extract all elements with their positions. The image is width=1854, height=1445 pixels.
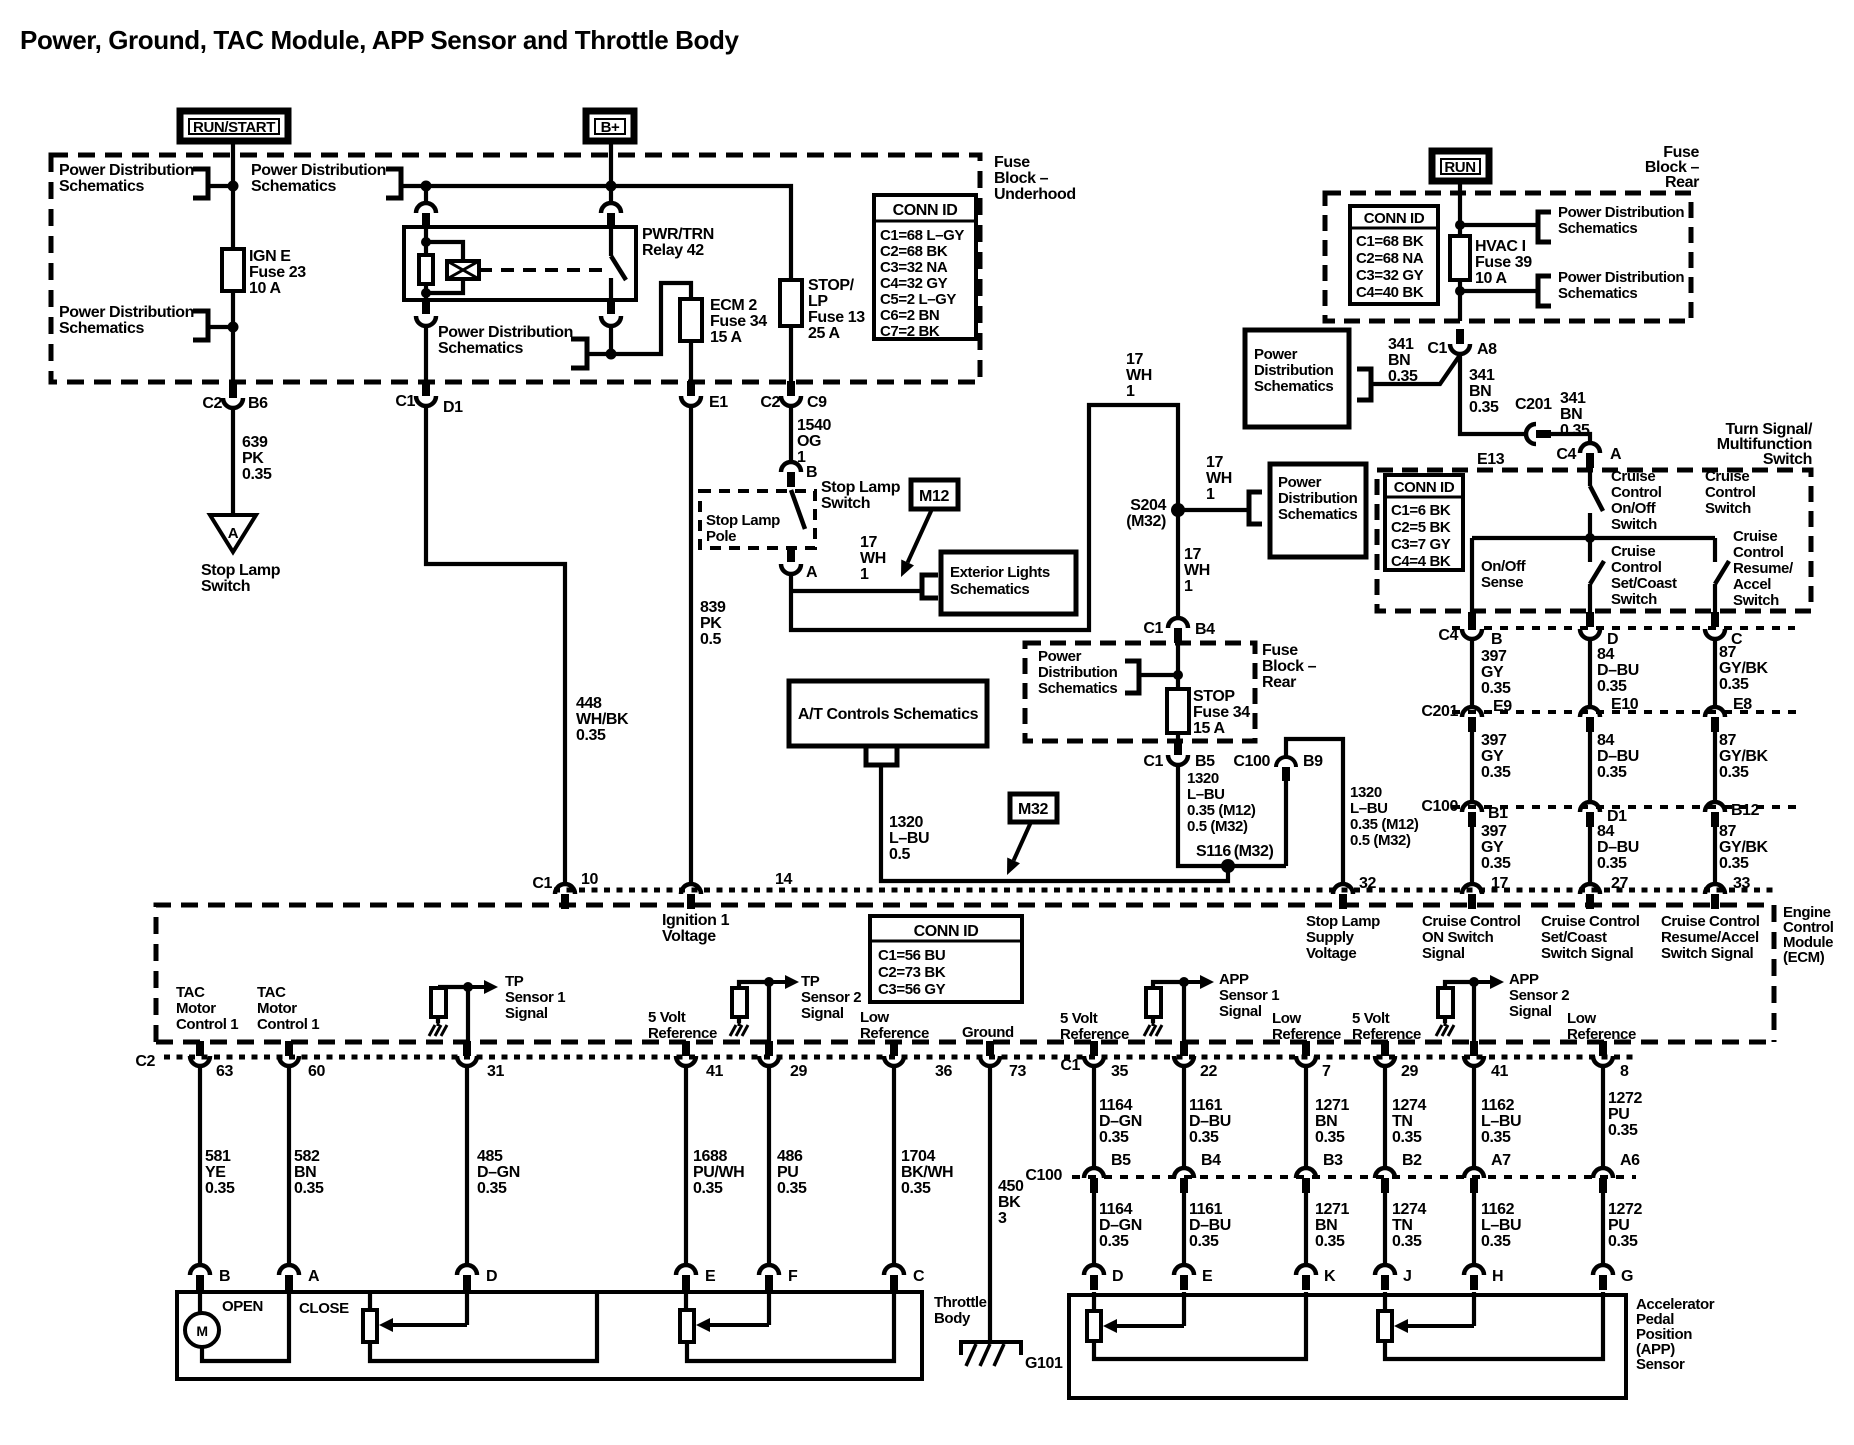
- wire 582 BN pin60 to A: [287, 1067, 291, 1264]
- ECM pin 27: [1580, 884, 1600, 909]
- wire 1704 BKWH pin36 to C: [892, 1067, 896, 1264]
- connector C201 E9: [1462, 707, 1482, 732]
- label OPEN: [222, 1298, 263, 1315]
- ECM pin 29: [759, 1041, 779, 1066]
- wire F wiper arrow pot2: [767, 1289, 771, 1325]
- ECM pin 31: [457, 1041, 477, 1066]
- relay coil resistor: [419, 255, 433, 284]
- wire label 1162 L–BU 0.35 upper: [1481, 1097, 1521, 1146]
- connector C100 B9: [1276, 757, 1296, 781]
- wire D wiper arrow pot1: [465, 1289, 469, 1325]
- fuse STOP/LP Fuse 13 25A: [780, 280, 802, 326]
- wire label 1704 BK/WH 0.35: [901, 1148, 953, 1197]
- cruise control resume/accel switch blade: [1713, 538, 1717, 562]
- svg-text:B: B: [219, 1268, 230, 1285]
- label low reference app1: [1272, 1010, 1341, 1043]
- label ground: [962, 1024, 1014, 1041]
- wire branch to exterior lights: [791, 589, 921, 593]
- label stop lamp supply voltage: [1306, 913, 1380, 962]
- svg-text:C2: C2: [760, 394, 780, 411]
- bracket power distribution HVAC top: [1538, 212, 1551, 242]
- wire 1688 PUWH pin41 to E: [684, 1067, 688, 1264]
- connector B stop lamp switch: [781, 462, 801, 487]
- svg-text:F: F: [788, 1268, 798, 1285]
- wire RUN to HVAC fuse: [1458, 181, 1462, 236]
- wire label 1274 TN 0.35 lower: [1392, 1201, 1426, 1250]
- wire motor loop: [198, 1289, 202, 1313]
- node junction at Power Distribution tap 1: [228, 181, 239, 192]
- wire APP pot1 bottom to K: [1094, 1292, 1306, 1359]
- connector C1 B5: [1168, 740, 1188, 765]
- wire 84 DBU col2 row1: [1588, 639, 1592, 707]
- svg-text:C1: C1: [395, 393, 415, 410]
- svg-text:E13: E13: [1477, 451, 1505, 468]
- APP sensor 2 pullup resistor: [1438, 988, 1453, 1017]
- wire label 1272 PU 0.35 lower: [1608, 1201, 1642, 1250]
- wire STOP fuse to C1 B5: [1176, 733, 1180, 741]
- svg-text:C100: C100: [1233, 753, 1270, 770]
- wire label 397 GY 0.35 row1: [1481, 648, 1511, 697]
- svg-text:B3: B3: [1323, 1152, 1343, 1169]
- label throttle body: [934, 1294, 987, 1327]
- wire 84 DBU col2 row3: [1588, 827, 1592, 884]
- wire IGN E fuse to connector C2 B6: [231, 291, 235, 381]
- svg-text:M: M: [196, 1323, 207, 1339]
- junction dot B plus bus: [606, 181, 617, 192]
- svg-text:D: D: [1112, 1268, 1123, 1285]
- svg-text:35: 35: [1111, 1063, 1128, 1080]
- wire label 1272 PU 0.35 upper: [1608, 1090, 1642, 1139]
- bracket Power Distribution Schematics 4: [571, 339, 587, 368]
- wire A8 to C201: [1460, 355, 1526, 434]
- svg-text:Power, Ground, TAC Module, APP: Power, Ground, TAC Module, APP Sensor an…: [20, 25, 740, 55]
- ECM pin 10: [555, 884, 575, 909]
- label TAC motor control 1 a: [176, 984, 238, 1033]
- label cruise control resume accel switch: [1733, 528, 1794, 609]
- turn signal dashed box: [1377, 470, 1811, 611]
- svg-text:B5: B5: [1111, 1152, 1131, 1169]
- svg-text:C1=6 BKC2=5 BKC3=7 GYC4=4 BK: C1=6 BKC2=5 BKC3=7 GYC4=4 BK: [1391, 502, 1451, 570]
- connector C100 A6: [1593, 1168, 1613, 1193]
- wire 485 DGN pin31 to D: [465, 1067, 469, 1264]
- svg-text:CLOSE: CLOSE: [299, 1300, 349, 1317]
- relay coil branch return: [426, 279, 463, 293]
- wire label 486 PU 0.35: [777, 1148, 807, 1197]
- connector C1 D1: [416, 381, 436, 406]
- wire 87 GYBK col3 row3: [1713, 827, 1717, 884]
- ECM pin 73: [980, 1041, 1000, 1066]
- connector throttle body C: [884, 1265, 904, 1290]
- stop lamp switch blade: [791, 490, 805, 529]
- svg-text:C1: C1: [532, 875, 552, 892]
- svg-text:M32: M32: [1018, 801, 1048, 818]
- wire label 84 D-BU 0.35 row1: [1597, 646, 1639, 695]
- connector C4 A: [1580, 443, 1600, 468]
- label 5 volt reference app2: [1352, 1010, 1421, 1043]
- svg-text:RUN: RUN: [1444, 159, 1475, 176]
- wire label 397 GY 0.35 row3: [1481, 823, 1511, 872]
- throttle body box: [177, 1292, 922, 1379]
- wire APP col A7 upper: [1472, 1067, 1476, 1168]
- label cruise control set/coast switch signal: [1541, 913, 1640, 962]
- label S204 M32: [1126, 497, 1166, 530]
- svg-text:CruiseControlOn/OffSwitch: CruiseControlOn/OffSwitch: [1611, 468, 1662, 533]
- label APP sensor 1 signal: [1219, 971, 1279, 1020]
- svg-text:PWR/TRNRelay 42: PWR/TRNRelay 42: [642, 226, 714, 259]
- wire H wiper arrow APP pot2: [1472, 1292, 1476, 1326]
- svg-text:C2: C2: [135, 1053, 155, 1070]
- connector C1 A8: [1450, 329, 1470, 354]
- label ECM 2 fuse: [710, 297, 767, 346]
- APP pot 1: [1092, 1292, 1096, 1311]
- fuse block rear dashed box 1: [1325, 193, 1691, 321]
- wire label 84 D-BU 0.35 row2: [1597, 732, 1639, 781]
- label G101: [1025, 1355, 1063, 1372]
- bracket Power Distribution Schematics 3: [386, 169, 401, 198]
- ECM module dashed boundary bottom: [156, 1040, 1774, 1045]
- svg-text:29: 29: [1401, 1063, 1418, 1080]
- svg-text:E: E: [705, 1268, 716, 1285]
- ECM pin 63: [190, 1041, 210, 1066]
- wire label 87 GY/BK 0.35 row2: [1719, 732, 1769, 781]
- svg-text:31: 31: [487, 1063, 504, 1080]
- svg-text:A: A: [308, 1268, 320, 1285]
- label PWR/TRN Relay 42: [642, 226, 714, 259]
- svg-text:B: B: [806, 464, 817, 481]
- label CLOSE: [299, 1300, 349, 1317]
- relay top pin connector switch side: [609, 186, 613, 204]
- svg-text:CONN ID: CONN ID: [1394, 479, 1455, 496]
- connector row C100 APP dashed: [1072, 1175, 1636, 1179]
- wire APP col B5 upper: [1092, 1067, 1096, 1168]
- svg-text:36: 36: [935, 1063, 952, 1080]
- off-page triangle A stop lamp switch: [210, 515, 256, 552]
- connector APP J: [1375, 1265, 1395, 1290]
- svg-text:60: 60: [308, 1063, 325, 1080]
- wire 397 GY col1 row3: [1470, 827, 1474, 884]
- APP sensor 2 signal arrow: [1445, 982, 1474, 988]
- svg-text:H: H: [1492, 1268, 1503, 1285]
- label Stop Lamp Switch destination: [201, 562, 281, 595]
- svg-text:C100: C100: [1025, 1167, 1062, 1184]
- power node RUN/START: [180, 111, 288, 141]
- svg-text:A: A: [806, 564, 818, 581]
- wire APP col A6 lower: [1601, 1193, 1605, 1266]
- arrow M32 to wire: [1007, 822, 1031, 875]
- APP sensor 1 ground: [1144, 1023, 1162, 1036]
- connector throttle body E: [676, 1265, 696, 1290]
- wire label 639 PK 0.35: [242, 434, 272, 483]
- connector C100 A7: [1464, 1168, 1484, 1193]
- label cruise control switch: [1705, 468, 1756, 517]
- ECM top dotted pin row: [554, 888, 1774, 893]
- label Power Distribution Schematics 1: [59, 162, 194, 195]
- bracket A/T controls: [866, 746, 897, 765]
- svg-text:41: 41: [1491, 1063, 1508, 1080]
- label accelerator pedal position APP sensor: [1636, 1296, 1715, 1373]
- connector APP D: [1084, 1265, 1104, 1290]
- ECM pin 8 C1: [1593, 1041, 1613, 1066]
- wire 581 YE pin63 to B: [198, 1067, 202, 1264]
- svg-text:B12: B12: [1731, 802, 1760, 819]
- wire APP col B3 lower: [1304, 1193, 1308, 1266]
- wire label 341 BN 0.35 left: [1388, 336, 1418, 385]
- svg-text:7: 7: [1322, 1063, 1331, 1080]
- fuse block underhood dashed box: [51, 155, 980, 382]
- ECM bottom dotted pin row: [164, 1055, 1637, 1060]
- rear CONN ID table: [1350, 206, 1438, 304]
- TP sensor 1 ground: [429, 1023, 447, 1036]
- wire B4 to STOP fuse: [1176, 643, 1180, 689]
- label E10: [1611, 696, 1639, 713]
- label power distribution HVAC top: [1558, 204, 1684, 237]
- svg-text:CONN ID: CONN ID: [1364, 210, 1425, 227]
- label Power Distribution Schematics 4: [438, 324, 573, 357]
- ECM pin 29 C1: [1375, 1041, 1395, 1066]
- wire APP col B3 upper: [1304, 1067, 1308, 1168]
- APP pot 2: [1383, 1292, 1387, 1311]
- label Power Distribution Schematics 3: [251, 162, 386, 195]
- svg-text:E1: E1: [709, 394, 728, 411]
- wire 397 GY col1 row1: [1470, 639, 1474, 707]
- wire label 87 GY/BK 0.35 row3: [1719, 823, 1769, 872]
- fuse STOP Fuse 34 15A: [1167, 689, 1189, 733]
- title: [20, 25, 740, 55]
- connector APP K: [1296, 1265, 1316, 1290]
- svg-text:CONN ID: CONN ID: [914, 923, 979, 940]
- wire label 1320 L-BU 0.5: [889, 814, 929, 863]
- label APP sensor 2 signal: [1509, 971, 1569, 1020]
- wire label 448 WH/BK 0.35: [576, 695, 629, 744]
- ECM pin 22 C1: [1174, 1041, 1194, 1066]
- label TP sensor 2 signal: [801, 973, 861, 1022]
- wire HVAC fuse down: [1458, 280, 1462, 321]
- connector C2 B6: [223, 383, 243, 408]
- wire label 1540 OG 1: [797, 417, 831, 466]
- connector row C100 dashed: [1452, 805, 1800, 809]
- A/T controls schematics box: [789, 681, 987, 746]
- wire label 341 BN 0.35 middle: [1469, 367, 1499, 416]
- wire B5 to splice S116: [1178, 766, 1286, 866]
- svg-text:B: B: [1491, 631, 1502, 648]
- svg-text:73: 73: [1009, 1063, 1026, 1080]
- wire E1 to ECM pin 14: [689, 407, 693, 884]
- wire A/T to S116: [881, 765, 1228, 881]
- connector row C4 dashed: [1452, 626, 1795, 630]
- svg-text:CruiseControlSwitch: CruiseControlSwitch: [1705, 468, 1756, 517]
- ECM pin 7 C1: [1296, 1041, 1316, 1066]
- wire label 582 BN 0.35: [294, 1148, 324, 1197]
- label on/off sense: [1481, 558, 1527, 591]
- label STOP/LP fuse: [808, 277, 865, 342]
- svg-text:OPEN: OPEN: [222, 1298, 263, 1315]
- wire label 17 WH 1 at switch: [860, 534, 886, 583]
- APP sensor 2 ground: [1436, 1023, 1454, 1036]
- wire label 17 WH 1 above S204: [1206, 454, 1232, 503]
- svg-text:M12: M12: [919, 488, 949, 505]
- svg-text:A: A: [1610, 446, 1622, 463]
- exterior lights schematics box: [941, 552, 1076, 614]
- APP sensor box: [1069, 1295, 1626, 1398]
- wire label 341 BN 0.35 right: [1560, 390, 1590, 439]
- svg-text:Cruise ControlResume/AccelSwit: Cruise ControlResume/AccelSwitch Signal: [1661, 913, 1760, 962]
- svg-text:41: 41: [706, 1063, 723, 1080]
- cruise node line: [1472, 536, 1715, 540]
- TP sensor 1 pullup resistor: [431, 988, 446, 1017]
- label engine control module ECM: [1783, 904, 1834, 966]
- wire APP col B4 lower: [1182, 1193, 1186, 1266]
- wire APP col A7 lower: [1472, 1193, 1476, 1266]
- label 5 volt reference left: [648, 1009, 717, 1042]
- throttle motor M: [185, 1313, 219, 1347]
- ECM pin 14: [681, 884, 701, 909]
- svg-text:32: 32: [1359, 875, 1376, 892]
- svg-text:CONN ID: CONN ID: [893, 202, 958, 219]
- connector APP E: [1174, 1265, 1194, 1290]
- ECM pin 35 C1: [1084, 1041, 1104, 1066]
- svg-text:C201: C201: [1515, 396, 1552, 413]
- svg-text:B1: B1: [1488, 805, 1508, 822]
- svg-text:C1: C1: [1060, 1057, 1080, 1074]
- arrow M12 to wire: [901, 509, 932, 577]
- ECM CONN ID table: [870, 916, 1022, 1002]
- wire label 1320 L-BU dual at B5: [1187, 770, 1256, 835]
- TP sensor 2 ground: [730, 1023, 748, 1036]
- label Power Distribution Schematics 2: [59, 304, 194, 337]
- svg-text:D: D: [486, 1268, 497, 1285]
- fuse ECM 2 Fuse 34 15A: [680, 299, 702, 341]
- wire B+ down to bus: [609, 141, 613, 186]
- wire label 1320 L-BU dual at 32: [1350, 784, 1419, 849]
- TP sensor 2 pullup resistor: [732, 988, 747, 1017]
- ECM pin 60: [279, 1041, 299, 1066]
- label power distribution in stop fuse box: [1038, 648, 1118, 697]
- label HVAC fuse: [1475, 238, 1532, 287]
- label cruise control resume/accel switch signal: [1661, 913, 1760, 962]
- connector C100 B3: [1296, 1168, 1316, 1193]
- wire power bus: [401, 186, 791, 280]
- svg-text:A6: A6: [1620, 1152, 1640, 1169]
- label STOP fuse 34: [1193, 688, 1250, 737]
- label ignition 1 voltage: [662, 912, 730, 945]
- connector row C201 dashed: [1452, 710, 1800, 714]
- wire 87 GYBK col3 row1: [1713, 639, 1717, 707]
- svg-text:A/T Controls Schematics: A/T Controls Schematics: [798, 706, 979, 723]
- wire label 397 GY 0.35 row2: [1481, 732, 1511, 781]
- svg-text:29: 29: [790, 1063, 807, 1080]
- label cruise control on/off switch: [1611, 468, 1662, 533]
- svg-text:C1: C1: [1143, 753, 1163, 770]
- svg-text:C201: C201: [1421, 703, 1458, 720]
- label E13: [1477, 451, 1505, 468]
- bracket power distribution at S204: [1249, 492, 1262, 524]
- svg-text:8: 8: [1620, 1063, 1629, 1080]
- underhood CONN ID table: [874, 195, 976, 340]
- TP sensor 2 signal arrow: [739, 982, 769, 988]
- turnsignal CONN ID table: [1385, 475, 1463, 570]
- label E9: [1493, 698, 1512, 715]
- svg-text:RUN/START: RUN/START: [193, 119, 275, 136]
- svg-text:On/OffSense: On/OffSense: [1481, 558, 1527, 591]
- bracket Power Distribution Schematics 1: [193, 169, 208, 198]
- connector C100 B4: [1174, 1168, 1194, 1193]
- connector C100 B12: [1705, 802, 1725, 827]
- svg-text:10: 10: [581, 871, 598, 888]
- svg-text:B5: B5: [1195, 753, 1215, 770]
- ECM module dashed boundary: [156, 905, 1774, 1042]
- wire 341 BN diagonal to A8: [1371, 355, 1460, 384]
- svg-text:C4: C4: [1556, 446, 1576, 463]
- wire pot1 bottom to frame: [370, 1292, 597, 1361]
- connector APP G: [1593, 1265, 1613, 1290]
- wire 486 PU pin29 to F: [767, 1067, 771, 1264]
- connector APP H: [1464, 1265, 1484, 1290]
- wire label 1161 D–BU 0.35 upper: [1189, 1097, 1231, 1146]
- wire RUN/START to IGN E fuse: [231, 141, 235, 249]
- svg-text:S116 (M32): S116 (M32): [1196, 843, 1274, 860]
- APP sensor 1 signal arrow: [1153, 982, 1184, 988]
- wire label 450 BK 3: [998, 1178, 1024, 1227]
- wire label 1161 D–BU 0.35 lower: [1189, 1201, 1231, 1250]
- svg-text:63: 63: [216, 1063, 233, 1080]
- wire APP col B2 upper: [1383, 1067, 1387, 1168]
- label IGN E fuse: [249, 248, 306, 297]
- wire S204 to power distribution: [1178, 508, 1248, 512]
- connector C100 B1: [1462, 802, 1482, 827]
- relay switch contact: [609, 227, 613, 256]
- label cruise control set/coast switch: [1611, 543, 1677, 608]
- relay bottom pin coil side: [422, 300, 430, 314]
- svg-text:E: E: [1202, 1268, 1213, 1285]
- label M32 callout box: [1010, 794, 1057, 822]
- relay PWR/TRN Relay 42 box: [404, 227, 636, 300]
- svg-text:14: 14: [775, 871, 792, 888]
- svg-text:C1: C1: [1427, 340, 1447, 357]
- APP sensor 1 pullup resistor: [1146, 988, 1161, 1017]
- connector throttle body F: [759, 1265, 779, 1290]
- connector C201 E8: [1705, 707, 1725, 732]
- connector throttle body D: [457, 1265, 477, 1290]
- label M12 callout box: [911, 480, 958, 509]
- svg-text:C1=56 BUC2=73 BKC3=56 GY: C1=56 BUC2=73 BKC3=56 GY: [878, 947, 946, 998]
- relay coil valve symbol: [447, 261, 479, 279]
- connector throttle body A: [279, 1265, 299, 1290]
- wire APP col B2 lower: [1383, 1193, 1387, 1266]
- svg-text:D1: D1: [443, 399, 463, 416]
- wire C1 D1 to ECM pin 10: [426, 407, 565, 884]
- svg-text:33: 33: [1733, 875, 1750, 892]
- connector A stop lamp switch: [787, 548, 795, 562]
- svg-text:C1: C1: [1143, 620, 1163, 637]
- label low reference app2: [1567, 1010, 1636, 1043]
- bracket power distribution HVAC bottom: [1538, 276, 1551, 306]
- wire label 839 PK 0.5: [700, 599, 726, 648]
- wire 397 GY col1 row2: [1470, 732, 1474, 802]
- fuse HVAC I Fuse 39 10A: [1450, 236, 1470, 280]
- wire label 1688 PU/WH 0.35: [693, 1148, 744, 1197]
- relay bottom pin switch side: [607, 300, 615, 314]
- svg-text:B+: B+: [601, 119, 620, 136]
- svg-text:22: 22: [1200, 1063, 1217, 1080]
- wire APP pot2 bottom to G: [1385, 1292, 1603, 1359]
- bracket exterior lights: [922, 575, 938, 598]
- svg-text:G: G: [1621, 1268, 1633, 1285]
- wire label 1162 L–BU 0.35 lower: [1481, 1201, 1521, 1250]
- wire label 1271 BN 0.35 upper: [1315, 1097, 1349, 1146]
- label cruise control on switch signal: [1422, 913, 1521, 962]
- splice S204: [1171, 503, 1185, 517]
- wire label 84 D-BU 0.35 row3: [1597, 823, 1639, 872]
